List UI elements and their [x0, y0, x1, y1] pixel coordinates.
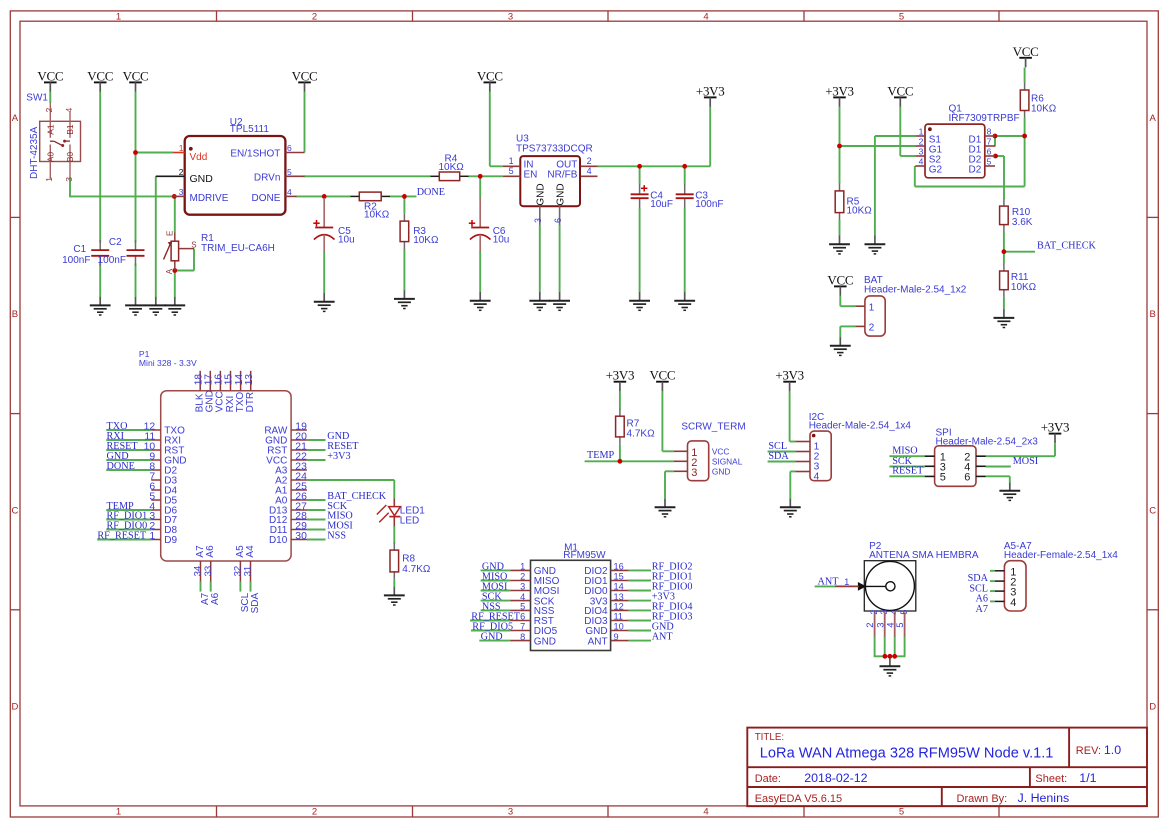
svg-text:16: 16: [614, 562, 624, 572]
svg-text:5: 5: [899, 610, 909, 615]
net flag VCC (BAT): [827, 272, 853, 296]
capacitor C6: [469, 198, 510, 252]
svg-text:4: 4: [919, 156, 924, 166]
svg-text:EasyEDA V5.6.15: EasyEDA V5.6.15: [755, 793, 842, 805]
svg-text:2: 2: [587, 156, 592, 166]
wire A5-A7 stub: [990, 600, 995, 602]
ground (SPI): [999, 482, 1020, 501]
ground (R3): [394, 290, 415, 309]
svg-text:100nF: 100nF: [98, 255, 126, 266]
wire M1 left pin5 net: [481, 609, 511, 611]
svg-text:4.7KΩ: 4.7KΩ: [627, 428, 656, 439]
ground (R1): [164, 296, 185, 315]
wire P1 pin21 net: [307, 449, 326, 451]
svg-text:Header-Female-2.54_1x4: Header-Female-2.54_1x4: [1004, 550, 1118, 561]
Drawn By field: [957, 791, 1070, 805]
svg-text:C2: C2: [109, 237, 122, 248]
svg-text:4: 4: [587, 166, 592, 176]
wire U3 pin6 to ground: [559, 225, 561, 292]
wire M1 right pin9 net: [629, 640, 651, 642]
svg-text:2: 2: [869, 610, 879, 615]
svg-text:REV:: REV:: [1076, 745, 1101, 757]
svg-text:1: 1: [844, 577, 849, 587]
wire P2 bottom pin: [884, 636, 886, 656]
svg-text:A: A: [165, 268, 174, 274]
resistor R11: [1000, 264, 1037, 298]
svg-text:1: 1: [869, 303, 875, 314]
svg-text:Header-Male-2.54_1x4: Header-Male-2.54_1x4: [809, 421, 912, 432]
svg-text:5: 5: [509, 166, 514, 176]
net flag +3V3 (R7): [606, 368, 635, 392]
svg-text:100nF: 100nF: [695, 199, 723, 210]
wire P1 bottom pin: [200, 581, 202, 592]
svg-text:VCC: VCC: [649, 368, 675, 383]
svg-text:MDRIVE: MDRIVE: [190, 193, 229, 204]
svg-text:3: 3: [879, 610, 889, 615]
P1 right pins 19-30: [264, 421, 307, 546]
svg-text:2: 2: [919, 136, 924, 146]
P1 left pins 12-1: [144, 421, 187, 546]
wire P2 bus to ground: [889, 656, 891, 658]
capacitor C4: [631, 184, 673, 210]
connector SCRW_TERM: [674, 422, 746, 481]
svg-text:3: 3: [533, 218, 543, 223]
wire SCK net: [889, 466, 924, 468]
svg-text:A: A: [12, 113, 19, 124]
svg-text:3: 3: [520, 582, 525, 592]
svg-text:GND: GND: [534, 636, 556, 647]
wire C6 branch: [479, 176, 481, 292]
svg-text:SDA: SDA: [768, 451, 789, 462]
wire M1 left pin7 net: [471, 630, 510, 632]
wire P1 pin29 net: [307, 529, 326, 531]
ground (U3 pin6): [549, 292, 570, 311]
svg-text:MOSI: MOSI: [1013, 456, 1039, 467]
svg-text:10KΩ: 10KΩ: [439, 162, 465, 173]
wire R10 to BAT_CHECK junction: [1003, 232, 1005, 252]
wire R1 A to ground: [174, 271, 176, 298]
svg-text:2: 2: [869, 323, 875, 334]
wire A5-A7 stub: [990, 580, 995, 582]
svg-text:EN/1SHOT: EN/1SHOT: [230, 149, 280, 160]
junction 3V3/C4: [637, 164, 642, 169]
svg-text:RESET: RESET: [892, 466, 924, 477]
svg-text:LoRa WAN Atmega 328 RFM95W Nod: LoRa WAN Atmega 328 RFM95W Node v.1.1: [760, 746, 1054, 762]
wire M1 right pin12 net: [629, 609, 651, 611]
svg-text:1: 1: [44, 177, 54, 182]
resistor R8: [390, 543, 431, 580]
svg-text:2: 2: [312, 12, 317, 23]
wire MISO net: [889, 455, 924, 457]
svg-text:13: 13: [244, 374, 255, 386]
svg-text:9: 9: [614, 632, 619, 642]
resistor R10: [1000, 199, 1033, 233]
junction MDRIVE: [172, 194, 177, 199]
net flag VCC (SW1): [37, 68, 63, 92]
trimmer R1 TRIM_EU-CA6H: [164, 231, 275, 275]
svg-text:10u: 10u: [338, 235, 355, 246]
svg-text:2: 2: [520, 572, 525, 582]
wire P2 bottom pin: [904, 636, 906, 656]
svg-text:5: 5: [287, 167, 292, 177]
svg-text:4: 4: [814, 472, 820, 483]
svg-text:4: 4: [520, 592, 525, 602]
svg-text:3: 3: [508, 806, 513, 817]
wire P2 bottom pin: [894, 636, 896, 656]
svg-text:EN: EN: [524, 169, 538, 180]
wire +3V3 to G1 junction: [840, 107, 916, 146]
svg-text:ANT: ANT: [818, 576, 840, 587]
wire R7 to TEMP junction: [619, 445, 621, 462]
junction D1 pin8: [993, 134, 998, 139]
wire R8 to ground: [393, 580, 395, 588]
wire SPI pin6 to ground: [986, 476, 1010, 483]
net flag +3V3 (R5/Q1 G1): [825, 83, 854, 107]
svg-text:D: D: [11, 702, 18, 713]
wire S1 to ground: [875, 136, 915, 236]
svg-text:6: 6: [553, 218, 563, 223]
connector A5-A7 Header-Female-2.54_1x4: [995, 541, 1118, 611]
wire P1 pin1 net: [97, 539, 151, 541]
REV field: [1076, 743, 1121, 757]
wire R5 to ground: [839, 220, 841, 236]
svg-text:6: 6: [520, 612, 525, 622]
svg-text:4: 4: [703, 12, 708, 23]
wire M1 left pin4 net: [481, 600, 511, 602]
svg-text:4: 4: [889, 610, 899, 615]
svg-text:B: B: [12, 309, 18, 320]
svg-text:4: 4: [703, 806, 708, 817]
svg-text:ANTENA SMA HEMBRA: ANTENA SMA HEMBRA: [869, 550, 979, 561]
wire R4 to U3 EN: [468, 175, 502, 177]
svg-text:D9: D9: [164, 535, 177, 546]
wire VCC to BAT pin1: [840, 296, 855, 306]
Date field: [755, 771, 868, 785]
svg-text:A0: A0: [45, 152, 55, 163]
svg-text:TPS73733DCQR: TPS73733DCQR: [516, 143, 593, 154]
svg-text:+3V3: +3V3: [696, 83, 725, 98]
svg-text:10KΩ: 10KΩ: [1031, 104, 1057, 115]
svg-text:100nF: 100nF: [62, 255, 90, 266]
wire junction to R5: [839, 146, 841, 184]
wire SW1 pin3 to MDRIVE: [69, 178, 173, 197]
svg-text:DONE: DONE: [417, 187, 445, 198]
wire U3 OUT to +3V3: [598, 107, 711, 166]
net flag +3V3 (SPI): [1041, 420, 1070, 444]
svg-text:B: B: [1150, 309, 1156, 320]
frame row ticks left/right: [10, 217, 1158, 609]
svg-text:BAT_CHECK: BAT_CHECK: [1037, 241, 1097, 252]
wire SPI pin2 to +3V3: [986, 443, 1055, 456]
svg-text:DTR: DTR: [245, 392, 256, 413]
svg-text:J. Henins: J. Henins: [1018, 791, 1070, 805]
junction DONE/C5: [322, 194, 327, 199]
svg-text:7: 7: [520, 622, 525, 632]
wire TEMP net: [585, 460, 674, 462]
svg-text:10KΩ: 10KΩ: [1011, 282, 1037, 293]
svg-text:1.0: 1.0: [1104, 743, 1121, 757]
svg-text:SCRW_TERM: SCRW_TERM: [681, 422, 745, 433]
net flag VCC (U2 EN/1SHOT): [292, 68, 318, 92]
wire M1 right pin13 net: [629, 600, 651, 602]
svg-text:3: 3: [508, 12, 513, 23]
svg-text:SIGNAL: SIGNAL: [712, 457, 743, 467]
wire BAT pin2 to ground: [840, 326, 855, 337]
junction R1 A: [172, 268, 177, 273]
wire G2 loop to D1: [915, 136, 1025, 187]
svg-text:SDA: SDA: [250, 592, 261, 613]
wire MDRIVE junction down to R1 E: [174, 196, 176, 232]
svg-text:3: 3: [691, 467, 697, 479]
connector BAT Header-Male-2.54_1x2: [855, 275, 966, 336]
ground (C6): [470, 292, 491, 311]
wire I2C pin4 to ground: [790, 471, 795, 499]
capacitor C3: [676, 184, 724, 210]
wire P1 pin4 net: [106, 509, 151, 511]
title block frame: [747, 728, 1147, 807]
capacitor C1: [62, 240, 109, 266]
wire P1 pin9 net: [106, 459, 151, 461]
svg-text:5: 5: [940, 472, 946, 484]
wire M1 right pin11 net: [629, 620, 651, 622]
svg-text:10KΩ: 10KΩ: [413, 235, 439, 246]
svg-text:2: 2: [179, 167, 184, 177]
wire VCC to C1: [99, 92, 101, 243]
svg-text:2: 2: [312, 806, 317, 817]
svg-text:NR/FB: NR/FB: [547, 169, 577, 180]
wire M1 right pin14 net: [629, 590, 651, 592]
svg-text:G2: G2: [929, 165, 943, 176]
svg-text:2018-02-12: 2018-02-12: [804, 771, 867, 785]
net flag VCC (SCRW_TERM): [649, 368, 675, 392]
junction EN/C6: [478, 174, 483, 179]
svg-text:B0: B0: [65, 152, 75, 163]
svg-text:DONE: DONE: [251, 193, 280, 204]
wire C3 branch: [684, 166, 686, 292]
svg-text:A4: A4: [245, 545, 256, 558]
svg-text:GND: GND: [481, 632, 503, 643]
wire P1 pin30 net: [307, 539, 326, 541]
wire P1 bottom pin: [250, 581, 252, 592]
svg-text:10KΩ: 10KΩ: [364, 210, 390, 221]
svg-text:1: 1: [116, 806, 121, 817]
svg-text:IRF7309TRPBF: IRF7309TRPBF: [949, 113, 1020, 124]
ground (P2): [880, 657, 901, 676]
svg-text:4: 4: [1010, 597, 1016, 609]
wire R11 to ground: [1003, 297, 1005, 309]
P1 top pins 18-13: [193, 371, 256, 413]
resistor R6: [1020, 83, 1056, 119]
junction TEMP/R7: [618, 459, 623, 464]
wire RESET net: [889, 475, 924, 477]
junction D2 pin6: [993, 154, 998, 159]
wire P1 pin2 net: [106, 529, 151, 531]
wire C4 branch: [639, 166, 641, 292]
svg-text:DRVn: DRVn: [254, 173, 281, 184]
svg-text:+3V3: +3V3: [775, 368, 804, 383]
junction P2 pin4: [892, 654, 897, 659]
svg-text:TEMP: TEMP: [587, 450, 615, 461]
net flag VCC (U3 IN): [477, 68, 503, 92]
svg-text:S: S: [191, 241, 196, 250]
capacitor C5: [313, 198, 354, 252]
svg-text:VCC: VCC: [37, 68, 63, 83]
wire VCC to C2 and Vdd: [135, 92, 137, 243]
junction Vdd/VCC: [133, 150, 138, 155]
ground (C1): [90, 296, 111, 315]
svg-text:B1: B1: [65, 124, 75, 135]
svg-text:+3V3: +3V3: [825, 83, 854, 98]
svg-text:7: 7: [987, 136, 992, 146]
svg-text:13: 13: [614, 592, 624, 602]
resistor R5: [835, 183, 872, 220]
svg-text:GND: GND: [555, 183, 566, 205]
ground (C5): [314, 293, 335, 312]
wire P1 pin8 net: [106, 469, 151, 471]
svg-text:VCC: VCC: [477, 68, 503, 83]
svg-text:SW1: SW1: [26, 92, 48, 103]
wire M1 right pin15 net: [629, 580, 651, 582]
svg-text:A6: A6: [205, 545, 216, 558]
wire P1 bottom pin: [210, 581, 212, 592]
regulator U3 TPS73733DCQR: [503, 134, 598, 226]
svg-text:4.7KΩ: 4.7KΩ: [402, 564, 431, 575]
svg-text:DHT-4235A: DHT-4235A: [29, 126, 40, 179]
ground (C3): [674, 292, 695, 311]
svg-text:33: 33: [203, 566, 214, 577]
svg-text:GND: GND: [536, 183, 547, 205]
capacitor C2: [98, 237, 145, 266]
svg-text:1: 1: [520, 562, 525, 572]
wire Vdd junction to U2 pin1: [136, 152, 174, 154]
ground (R11): [994, 309, 1015, 328]
net flag VCC (C1): [87, 68, 113, 92]
ground (I2C): [780, 498, 801, 517]
svg-text:15: 15: [614, 572, 624, 582]
wire P1 pin11 net: [106, 439, 151, 441]
svg-text:5: 5: [520, 602, 525, 612]
connector P2 ANTENA SMA HEMBRA: [835, 541, 979, 637]
microcontroller board P1 Mini 328 - 3.3V: [139, 349, 291, 561]
svg-text:Mini 328 - 3.3V: Mini 328 - 3.3V: [139, 358, 197, 368]
svg-text:6: 6: [987, 146, 992, 156]
op-amp U2 TPL5111: [156, 117, 305, 215]
svg-text:TITLE:: TITLE:: [755, 732, 784, 743]
wire VCC to SCRW pin1: [662, 391, 674, 451]
wire R3 branch: [403, 196, 405, 290]
svg-text:+3V3: +3V3: [606, 368, 635, 383]
wire R6 to D1 junction: [1024, 118, 1026, 136]
frame row letters: [11, 113, 1156, 713]
svg-text:VCC: VCC: [1013, 44, 1039, 59]
wire M1 right pin16 net: [629, 569, 651, 571]
wire P1 pin26 net: [307, 499, 326, 501]
wire U3 pin3 to ground: [539, 225, 541, 292]
wire P1 pin22 net: [307, 459, 326, 461]
switch SW1 DHT-4235A: [26, 92, 80, 182]
svg-text:Vdd: Vdd: [190, 152, 208, 163]
ground (U2 GND): [145, 296, 166, 315]
net flag VCC (Q1 S2): [887, 83, 913, 107]
frame column numbers: [116, 12, 904, 818]
wire P1 pin28 net: [307, 519, 326, 521]
svg-text:A: A: [1150, 113, 1157, 124]
frame column ticks top/bottom: [217, 11, 1000, 817]
wire C2 to ground: [135, 264, 137, 298]
svg-text:4: 4: [64, 108, 74, 113]
junction D1/R6: [1022, 134, 1027, 139]
svg-text:1: 1: [179, 143, 184, 153]
wire P1 bottom pin: [239, 581, 241, 592]
wire +3V3 to I2C pin1: [790, 391, 796, 442]
wire A5-A7 stub: [990, 590, 995, 592]
resistor R3: [400, 214, 439, 250]
svg-text:8: 8: [520, 632, 525, 642]
svg-text:VCC: VCC: [87, 68, 113, 83]
net flag VCC (C2/U2 Vdd): [123, 68, 149, 92]
svg-text:A6: A6: [210, 592, 221, 605]
wire VCC to SW1 pin2: [49, 92, 51, 103]
svg-text:C: C: [1149, 505, 1156, 516]
svg-text:DONE: DONE: [107, 461, 135, 472]
svg-text:6: 6: [287, 143, 292, 153]
junction P2 pin3: [883, 654, 888, 659]
svg-text:TPL5111: TPL5111: [230, 124, 270, 135]
wire D2 to R10: [996, 156, 1005, 199]
wire SDA net: [768, 461, 796, 463]
svg-text:GND: GND: [190, 173, 214, 185]
svg-text:1: 1: [509, 156, 514, 166]
svg-text:Drawn By:: Drawn By:: [957, 793, 1008, 805]
svg-text:1: 1: [919, 126, 924, 136]
svg-text:NSS: NSS: [327, 531, 346, 542]
wire LED1 to R8: [393, 526, 395, 544]
wire junction to R11: [1003, 252, 1005, 264]
svg-text:VCC: VCC: [123, 68, 149, 83]
resistor R4: [431, 154, 469, 181]
wire SCL net: [768, 451, 796, 453]
svg-text:ANT: ANT: [652, 632, 674, 643]
resistor R2: [351, 192, 391, 221]
wire A5-A7 stub: [990, 570, 995, 572]
svg-text:31: 31: [243, 566, 254, 577]
wire P2 bottom pin: [874, 636, 876, 656]
svg-text:8: 8: [987, 126, 992, 136]
ground (R8): [384, 586, 405, 605]
svg-text:Date:: Date:: [755, 773, 781, 785]
svg-text:RF_RESET: RF_RESET: [97, 531, 146, 542]
svg-text:1/1: 1/1: [1079, 771, 1096, 785]
ground (SCRW_TERM): [655, 498, 676, 517]
wire M1 left pin1 net: [481, 569, 511, 571]
svg-text:GND: GND: [712, 467, 730, 477]
svg-text:5: 5: [899, 806, 904, 817]
wire P1 pin12 net: [106, 429, 151, 431]
junction +3V3/G1/R5: [837, 144, 842, 149]
svg-text:11: 11: [614, 612, 624, 622]
wire M1 right pin10 net: [629, 630, 651, 632]
svg-text:Header-Male-2.54_1x2: Header-Male-2.54_1x2: [864, 285, 967, 296]
svg-text:D10: D10: [269, 535, 288, 546]
svg-text:VCC: VCC: [887, 83, 913, 98]
svg-text:A7: A7: [976, 604, 988, 615]
wire ANT net: [815, 585, 835, 587]
svg-text:3: 3: [64, 177, 74, 182]
junction P2 gnd: [888, 654, 893, 659]
P1 bottom pins 34,33,32,31: [193, 545, 256, 581]
svg-text:14: 14: [614, 582, 624, 592]
wire BAT_CHECK stub: [1004, 251, 1035, 253]
